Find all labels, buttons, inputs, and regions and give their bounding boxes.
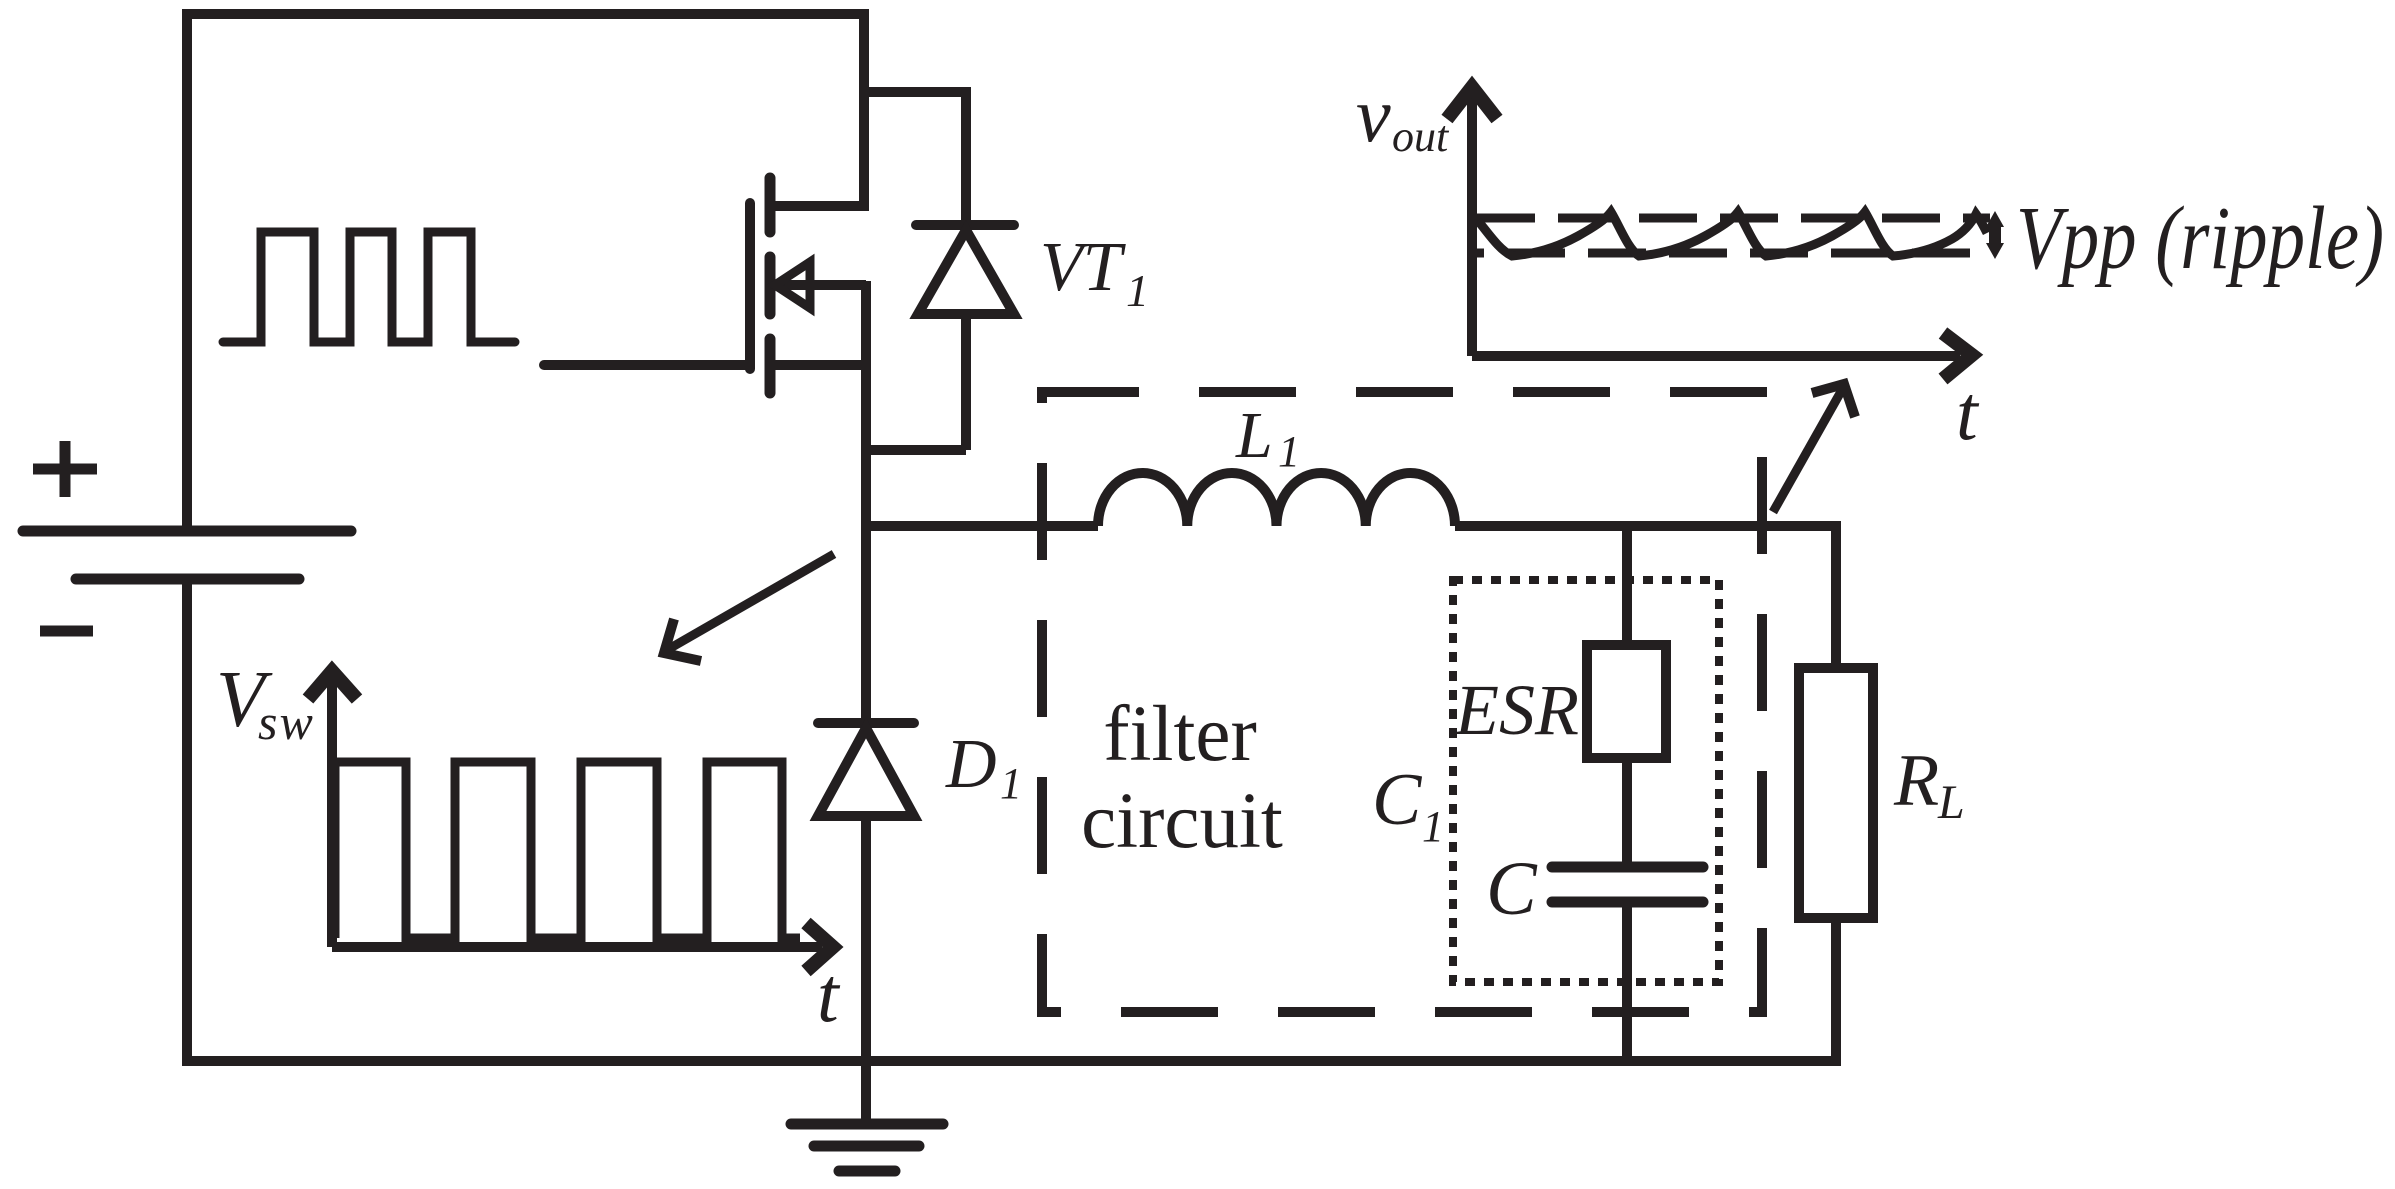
vout ripple waveform	[1478, 212, 1987, 256]
svg-text:circuit: circuit	[1081, 778, 1283, 865]
Vsw plot y-axis arrowhead	[308, 671, 357, 699]
svg-text:R: R	[1893, 740, 1939, 822]
wire gate lead	[544, 360, 750, 370]
wire switch node vertical lower	[861, 816, 871, 1061]
svg-text:C: C	[1486, 847, 1538, 931]
wire left upper	[182, 9, 192, 528]
svg-text:ESR: ESR	[1454, 670, 1579, 750]
wire RL branch upper	[1831, 526, 1841, 668]
vout dashed level lower	[1477, 249, 1990, 258]
svg-text:1: 1	[1126, 265, 1149, 316]
vout plot y-axis arrowhead	[1447, 87, 1497, 119]
vout plot y-axis	[1467, 92, 1477, 356]
resistor RL	[1799, 668, 1873, 918]
battery B1 plate negative	[76, 574, 299, 585]
ground bar 2	[814, 1141, 919, 1152]
svg-text:1: 1	[1422, 802, 1444, 851]
wire top	[182, 9, 869, 19]
svg-text:t: t	[817, 951, 841, 1038]
svg-text:L: L	[1937, 776, 1965, 829]
Vpp measurement marker	[1989, 224, 2001, 246]
diode D1 cathode bar	[818, 718, 914, 728]
wire bottom	[182, 1056, 1841, 1066]
svg-text:sw: sw	[258, 694, 315, 750]
svg-text:Vpp (ripple): Vpp (ripple)	[2016, 189, 2384, 288]
ground stem	[861, 1061, 871, 1124]
wire switch node vertical upper	[861, 281, 871, 723]
svg-text:L: L	[1235, 399, 1273, 472]
inductor L1	[1098, 473, 1455, 526]
svg-text:v: v	[1356, 71, 1391, 158]
wire C to bottom	[1622, 902, 1632, 1061]
battery plus sign	[33, 441, 97, 497]
annotation arrow to vout plot	[1773, 388, 1843, 512]
transistor VT1 MOSFET gate bar	[745, 203, 755, 369]
svg-text:filter: filter	[1103, 691, 1257, 778]
wire ESR to C	[1622, 758, 1632, 867]
svg-text:t: t	[1956, 369, 1980, 456]
svg-text:1: 1	[1000, 759, 1022, 808]
dotted box C1	[1453, 580, 1719, 982]
vout dashed level upper	[1477, 214, 1990, 223]
svg-text:out: out	[1392, 112, 1450, 161]
svg-text:C: C	[1372, 759, 1423, 841]
battery B1 plate positive	[23, 526, 351, 537]
transistor VT1 MOSFET body lead	[780, 280, 866, 290]
wire VT1 bottom to source node	[861, 445, 966, 455]
wire L1 to RL	[1455, 521, 1841, 531]
capacitor C plate top	[1552, 862, 1703, 873]
transistor VT1 MOSFET body arrowhead	[775, 262, 810, 308]
Vsw plot x-axis arrowhead	[806, 923, 833, 971]
capacitor C plate bottom	[1552, 897, 1703, 908]
wire RL branch lower	[1831, 918, 1841, 1066]
transistor VT1 MOSFET channel bars	[765, 178, 776, 393]
ground bar 3	[839, 1166, 895, 1177]
wire C1 branch upper	[1622, 526, 1632, 645]
vout plot x-axis	[1472, 351, 1960, 361]
body diode VT1 triangle	[918, 230, 1014, 314]
svg-text:D: D	[945, 726, 997, 803]
body diode VT1 cathode bar	[916, 220, 1014, 230]
svg-text:1: 1	[1278, 427, 1300, 476]
Vsw pulse waveform	[335, 762, 800, 938]
filter box dashed	[1042, 392, 1762, 1012]
ground bar 1	[791, 1119, 943, 1130]
wire jog to VT1 top	[859, 87, 966, 97]
wire left lower	[182, 579, 192, 1066]
PWM gate waveform	[223, 232, 515, 342]
svg-text:VT: VT	[1040, 229, 1127, 306]
annotation arrow to switch node	[667, 554, 834, 650]
Vsw plot x-axis	[332, 942, 822, 952]
vout plot x-axis arrowhead	[1943, 333, 1972, 379]
body diode VT1 top lead	[961, 87, 971, 225]
resistor ESR	[1587, 645, 1666, 758]
wire output node to L1	[866, 521, 1098, 531]
transistor VT1 MOSFET source lead	[765, 360, 866, 370]
battery minus sign	[40, 626, 93, 637]
diode D1 triangle	[818, 728, 914, 816]
wire drain drop	[765, 9, 864, 206]
Vsw plot y-axis	[327, 676, 337, 947]
body diode VT1 bottom lead	[961, 314, 971, 450]
